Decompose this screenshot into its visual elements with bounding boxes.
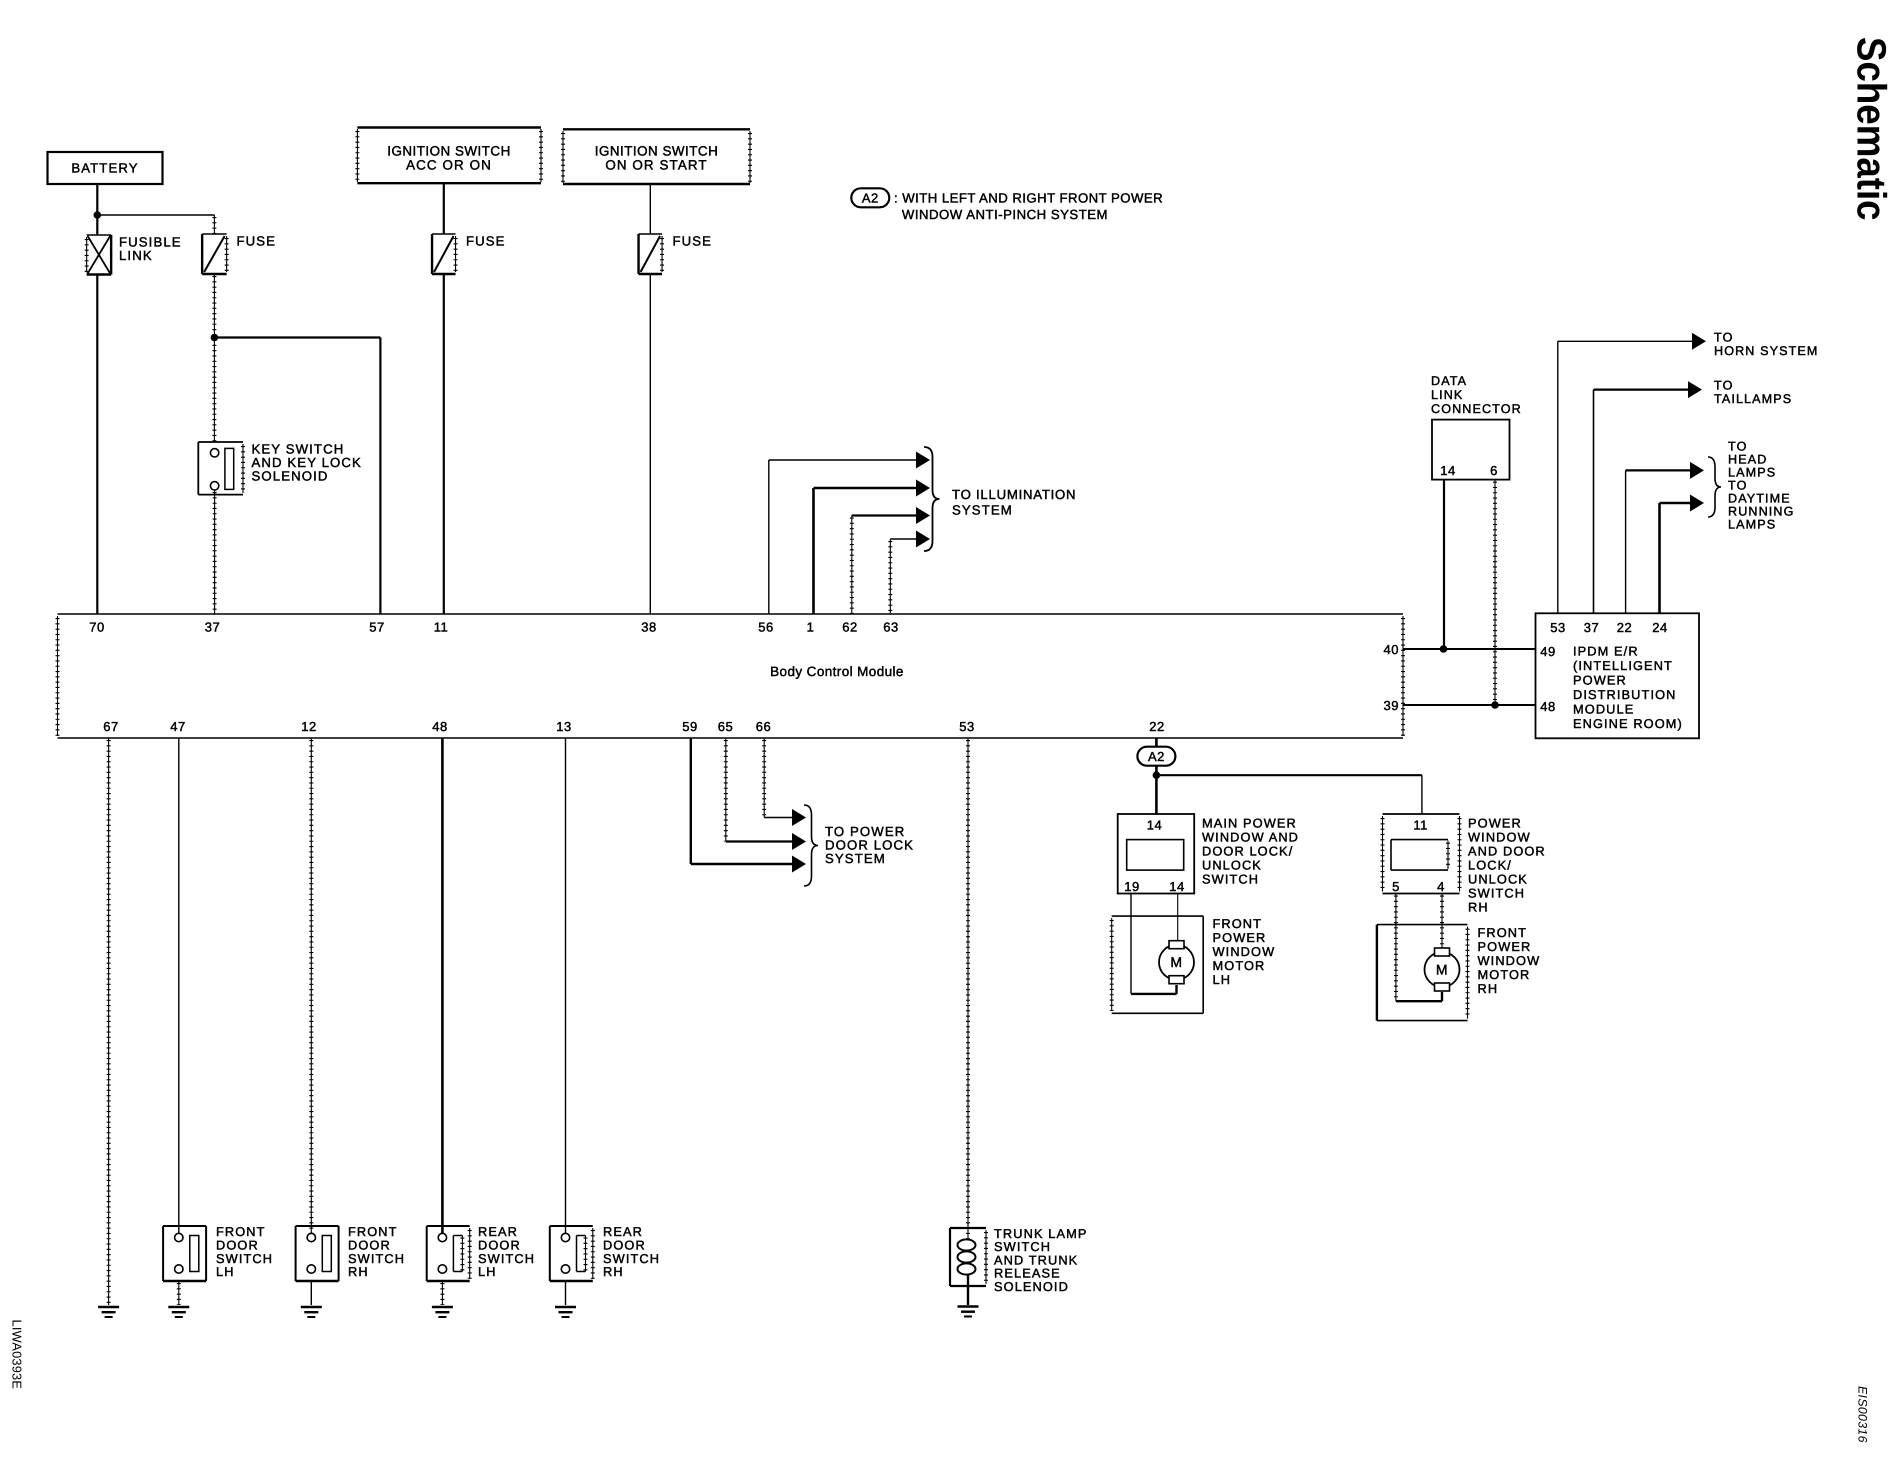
svg-text:22: 22 [1149, 719, 1164, 734]
svg-text:IPDM E/R: IPDM E/R [1573, 644, 1639, 659]
svg-text:AND DOOR: AND DOOR [1468, 844, 1546, 859]
svg-text:DISTRIBUTION: DISTRIBUTION [1573, 687, 1677, 702]
svg-text:65: 65 [718, 719, 733, 734]
svg-text:Body Control Module: Body Control Module [770, 664, 904, 679]
svg-text:POWER: POWER [1478, 939, 1532, 954]
svg-text:POWER: POWER [1213, 930, 1267, 945]
svg-text:14: 14 [1440, 463, 1455, 478]
svg-text:FUSE: FUSE [237, 234, 277, 249]
svg-text:39: 39 [1384, 698, 1399, 713]
svg-text:49: 49 [1540, 644, 1555, 659]
svg-text:56: 56 [758, 620, 773, 635]
svg-text:70: 70 [89, 620, 104, 635]
svg-text:LAMPS: LAMPS [1728, 466, 1776, 480]
svg-text:FRONT: FRONT [1478, 925, 1528, 940]
svg-text:DAYTIME: DAYTIME [1728, 492, 1791, 506]
svg-text:57: 57 [369, 620, 384, 635]
svg-text:1: 1 [807, 620, 815, 635]
svg-text:UNLOCK: UNLOCK [1468, 872, 1528, 887]
svg-text:14: 14 [1169, 879, 1184, 894]
svg-text:WINDOW AND: WINDOW AND [1202, 830, 1299, 845]
svg-text:SYSTEM: SYSTEM [952, 503, 1013, 518]
svg-text:RH: RH [603, 1264, 624, 1279]
svg-text:LINK: LINK [1431, 388, 1463, 402]
svg-text:12: 12 [301, 719, 316, 734]
svg-text:HORN SYSTEM: HORN SYSTEM [1714, 344, 1818, 358]
svg-text:A2: A2 [862, 191, 879, 206]
svg-text:M: M [1170, 954, 1182, 970]
svg-text:DOOR LOCK/: DOOR LOCK/ [1202, 844, 1293, 859]
svg-text:POWER: POWER [1468, 816, 1522, 831]
svg-text:48: 48 [1540, 699, 1555, 714]
svg-text:RH: RH [348, 1264, 369, 1279]
svg-text:4: 4 [1437, 879, 1445, 894]
svg-text:SOLENOID: SOLENOID [994, 1279, 1069, 1294]
svg-text:DATA: DATA [1431, 374, 1467, 388]
svg-text:ENGINE ROOM): ENGINE ROOM) [1573, 716, 1683, 731]
svg-text:13: 13 [556, 719, 571, 734]
svg-text:(INTELLIGENT: (INTELLIGENT [1573, 658, 1673, 673]
svg-text:MAIN POWER: MAIN POWER [1202, 816, 1297, 831]
svg-text:62: 62 [842, 620, 857, 635]
svg-text:WINDOW: WINDOW [1213, 944, 1276, 959]
svg-text:FUSE: FUSE [466, 234, 506, 249]
svg-text:LOCK/: LOCK/ [1468, 858, 1512, 873]
svg-text:LAMPS: LAMPS [1728, 518, 1776, 532]
svg-text:FRONT: FRONT [1213, 916, 1263, 931]
svg-text:TO: TO [1728, 479, 1747, 493]
svg-text:WINDOW: WINDOW [1468, 830, 1531, 845]
svg-text:24: 24 [1652, 620, 1667, 635]
svg-text:40: 40 [1384, 642, 1399, 657]
svg-text:59: 59 [682, 719, 697, 734]
svg-text:38: 38 [641, 620, 656, 635]
svg-text:LH: LH [478, 1264, 497, 1279]
svg-text:5: 5 [1392, 879, 1400, 894]
svg-text:11: 11 [434, 620, 449, 635]
svg-text:RH: RH [1468, 900, 1489, 915]
svg-text:ON OR START: ON OR START [605, 158, 707, 173]
svg-text:LIWA0393E: LIWA0393E [10, 1320, 25, 1390]
svg-text:Schematic: Schematic [1849, 37, 1894, 221]
svg-text:EIS00316: EIS00316 [1856, 1386, 1870, 1443]
svg-text:48: 48 [432, 719, 447, 734]
svg-text:A2: A2 [1148, 749, 1165, 764]
svg-text:MOTOR: MOTOR [1478, 967, 1531, 982]
svg-text:SOLENOID: SOLENOID [252, 469, 329, 484]
svg-text:11: 11 [1413, 818, 1428, 833]
svg-text:POWER: POWER [1573, 673, 1627, 688]
svg-text:HEAD: HEAD [1728, 453, 1767, 467]
svg-text:WINDOW ANTI-PINCH SYSTEM: WINDOW ANTI-PINCH SYSTEM [902, 207, 1108, 222]
svg-text:37: 37 [205, 620, 220, 635]
svg-text:TO: TO [1728, 440, 1747, 454]
svg-text:SWITCH: SWITCH [1468, 886, 1525, 901]
svg-text:TO: TO [1714, 379, 1733, 393]
svg-text:: WITH LEFT AND RIGHT FRONT PO: : WITH LEFT AND RIGHT FRONT POWER [894, 191, 1163, 206]
svg-text:MODULE: MODULE [1573, 702, 1634, 717]
svg-text:37: 37 [1584, 620, 1599, 635]
svg-text:19: 19 [1124, 879, 1139, 894]
svg-text:14: 14 [1147, 818, 1162, 833]
svg-text:RUNNING: RUNNING [1728, 505, 1794, 519]
svg-text:M: M [1436, 962, 1448, 978]
svg-text:47: 47 [170, 719, 185, 734]
svg-text:TO ILLUMINATION: TO ILLUMINATION [952, 487, 1076, 502]
svg-text:66: 66 [756, 719, 771, 734]
svg-text:LH: LH [216, 1264, 235, 1279]
svg-text:SWITCH: SWITCH [1202, 872, 1259, 887]
svg-text:SYSTEM: SYSTEM [825, 851, 886, 866]
svg-text:BATTERY: BATTERY [71, 161, 138, 176]
svg-text:IGNITION SWITCH: IGNITION SWITCH [595, 144, 719, 159]
svg-text:LH: LH [1213, 972, 1232, 987]
svg-text:63: 63 [883, 620, 898, 635]
svg-text:WINDOW: WINDOW [1478, 953, 1541, 968]
svg-text:FUSE: FUSE [673, 234, 713, 249]
svg-text:67: 67 [103, 719, 118, 734]
svg-text:53: 53 [1550, 620, 1565, 635]
svg-text:ACC OR ON: ACC OR ON [406, 158, 492, 173]
svg-text:TAILLAMPS: TAILLAMPS [1714, 392, 1792, 406]
svg-text:TO: TO [1714, 331, 1733, 345]
svg-text:UNLOCK: UNLOCK [1202, 858, 1262, 873]
svg-text:22: 22 [1617, 620, 1632, 635]
svg-text:53: 53 [959, 719, 974, 734]
svg-text:CONNECTOR: CONNECTOR [1431, 402, 1522, 416]
svg-text:RH: RH [1478, 981, 1499, 996]
svg-text:MOTOR: MOTOR [1213, 958, 1266, 973]
svg-text:IGNITION SWITCH: IGNITION SWITCH [387, 144, 511, 159]
svg-text:LINK: LINK [119, 248, 153, 263]
svg-text:6: 6 [1490, 463, 1498, 478]
